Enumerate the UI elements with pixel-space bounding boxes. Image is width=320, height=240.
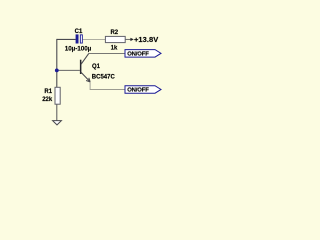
wire top-left to C1 (57, 38, 76, 40)
ground (53, 121, 62, 125)
svg-text:22k: 22k (42, 97, 53, 103)
resistor R1 (55, 87, 60, 104)
svg-text:ON/OFF: ON/OFF (127, 88, 149, 94)
capacitor C1 (76, 34, 83, 43)
wire R2 to supply arrow (125, 38, 131, 40)
wire collector to flag (89, 53, 125, 55)
svg-text:R1: R1 (44, 89, 52, 95)
resistor R2 (105, 36, 125, 42)
svg-text:R2: R2 (110, 30, 118, 36)
svg-text:C1: C1 (75, 29, 83, 35)
wire C1 to R2 (83, 39, 106, 41)
transistor Q1 (80, 54, 90, 82)
flag ON/OFF lower (125, 86, 161, 94)
wire R1 to ground (56, 104, 58, 120)
supply arrow (130, 38, 133, 41)
svg-text:+13.8V: +13.8V (134, 35, 158, 44)
flag ON/OFF upper (125, 50, 161, 58)
svg-text:Q1: Q1 (92, 64, 101, 70)
wire emitter to flag (90, 82, 125, 90)
wire left vertical (56, 39, 58, 88)
wire base (57, 69, 80, 71)
svg-text:10µ-100µ: 10µ-100µ (65, 45, 92, 52)
node junction base (55, 69, 59, 73)
svg-text:1k: 1k (111, 45, 118, 51)
svg-text:ON/OFF: ON/OFF (127, 52, 149, 58)
svg-text:BC547C: BC547C (92, 74, 116, 80)
